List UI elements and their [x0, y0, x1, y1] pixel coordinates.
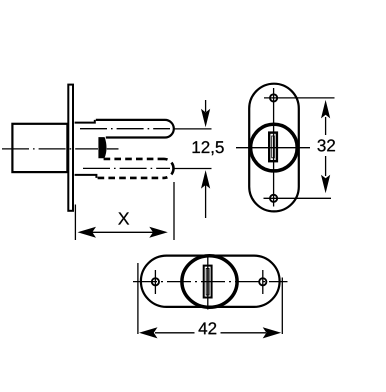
face plate oval (front view): [249, 84, 299, 212]
lower prong (hidden position, dashed): [104, 158, 164, 161]
dim X line with arrows: [92, 231, 156, 233]
dim 12,5 top extension line: [174, 128, 212, 130]
dim X left extension line: [74, 205, 76, 241]
flange (mounting plate, side view): [68, 85, 73, 211]
key slot (top view): [204, 266, 212, 298]
dim 12,5 up arrow: [205, 185, 207, 218]
lower prong axis centreline: [83, 167, 170, 169]
lock cylinder circle (front view): [251, 124, 298, 171]
latch catch (solid black): [98, 137, 106, 158]
lock cylinder (top view): [182, 256, 237, 308]
dim 42 left extension line: [137, 263, 139, 334]
neck top edge with step: [75, 120, 95, 123]
top prong axis centreline: [80, 128, 170, 130]
dim 12,5 down arrow: [205, 100, 207, 112]
main axis centreline: [2, 148, 98, 150]
front view horizontal centreline: [236, 147, 310, 149]
neck bottom edge with step: [75, 175, 97, 178]
dim 32 up arrow: [325, 117, 327, 135]
bottom screw hole (front view): [270, 195, 277, 202]
left screw hole (top view): [152, 278, 159, 285]
dim X label: [118, 212, 129, 224]
dim X right extension line: [173, 182, 175, 240]
dim 32 down arrow: [325, 156, 327, 176]
dim 12,5 label: [193, 141, 224, 155]
dim 42 right extension line: [281, 278, 283, 335]
front view vertical centreline: [273, 88, 275, 207]
top prong (locking tongue, extended): [96, 120, 174, 138]
dim 32 label: [318, 139, 335, 151]
right screw hole (top view): [259, 278, 266, 285]
top view vertical centreline: [207, 256, 209, 310]
top view horizontal centreline: [133, 281, 288, 283]
lock body (side view case): [12, 124, 67, 172]
base plate oval (top view): [141, 256, 280, 307]
dim 12,5 bottom extension line: [174, 168, 212, 170]
key slot (front view): [269, 133, 277, 162]
dim 42 line with arrows: [155, 332, 195, 334]
top screw hole (front view): [270, 94, 277, 101]
dim 42 label: [199, 322, 217, 334]
